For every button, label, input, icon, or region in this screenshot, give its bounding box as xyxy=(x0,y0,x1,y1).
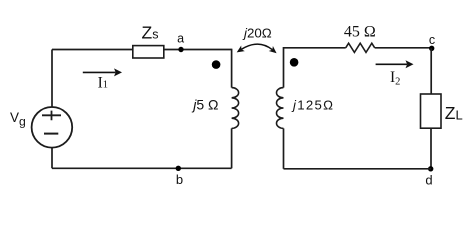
plus sign of source xyxy=(42,111,61,121)
wire: source bottom to bottom-left corner xyxy=(51,148,53,169)
voltage source Vg (circle) xyxy=(32,107,73,148)
wire: bottom-right horizontal xyxy=(284,168,432,170)
wire: right circuit top, coil to resistor xyxy=(284,47,346,49)
current arrow I1 xyxy=(83,68,122,76)
impedance Zs (box) xyxy=(133,46,164,58)
inductor L1 j5 ohm (coil, bumps to right) xyxy=(232,88,239,129)
svg-text:j20Ω: j20Ω xyxy=(242,26,272,41)
svg-text:d: d xyxy=(425,173,432,188)
wire: left vertical from top corner down to source xyxy=(51,50,53,108)
minus sign of source xyxy=(44,133,58,135)
wire: Zs to node a to top-left corner of coil xyxy=(164,49,232,51)
load ZL (box) xyxy=(421,94,442,128)
wire: bottom-left horizontal through node b xyxy=(52,167,232,169)
inductor L2 j125 ohm (coil, bumps to left) xyxy=(277,88,284,129)
svg-text:b: b xyxy=(176,172,183,187)
node b (junction dot) xyxy=(176,166,181,171)
svg-text:45 Ω: 45 Ω xyxy=(344,24,376,41)
wire: ZL to node d xyxy=(430,128,432,169)
node c (junction dot) xyxy=(429,46,434,51)
wire: right coil top lead xyxy=(283,47,285,88)
wire: left coil bottom lead xyxy=(231,128,233,168)
polarity dot of L1 xyxy=(212,60,221,69)
mutual coupling arrow (double-headed arc) xyxy=(237,44,277,53)
svg-text:j125Ω: j125Ω xyxy=(291,97,334,112)
wire: left coil top lead xyxy=(231,49,233,88)
svg-text:a: a xyxy=(177,31,184,45)
node a (junction dot) xyxy=(178,47,183,52)
wire: node c down to ZL xyxy=(430,48,432,94)
current arrow I2 xyxy=(376,60,414,68)
wire: resistor to node c xyxy=(375,47,432,49)
svg-text:j5 Ω: j5 Ω xyxy=(191,96,218,112)
wire: right coil bottom lead xyxy=(283,128,285,168)
resistor 45 ohm (zigzag) xyxy=(346,43,375,52)
svg-text:c: c xyxy=(429,33,435,47)
wire: top-left horizontal from source to Zs xyxy=(52,49,133,51)
polarity dot of L2 xyxy=(290,58,299,67)
node d (junction dot) xyxy=(428,166,433,171)
